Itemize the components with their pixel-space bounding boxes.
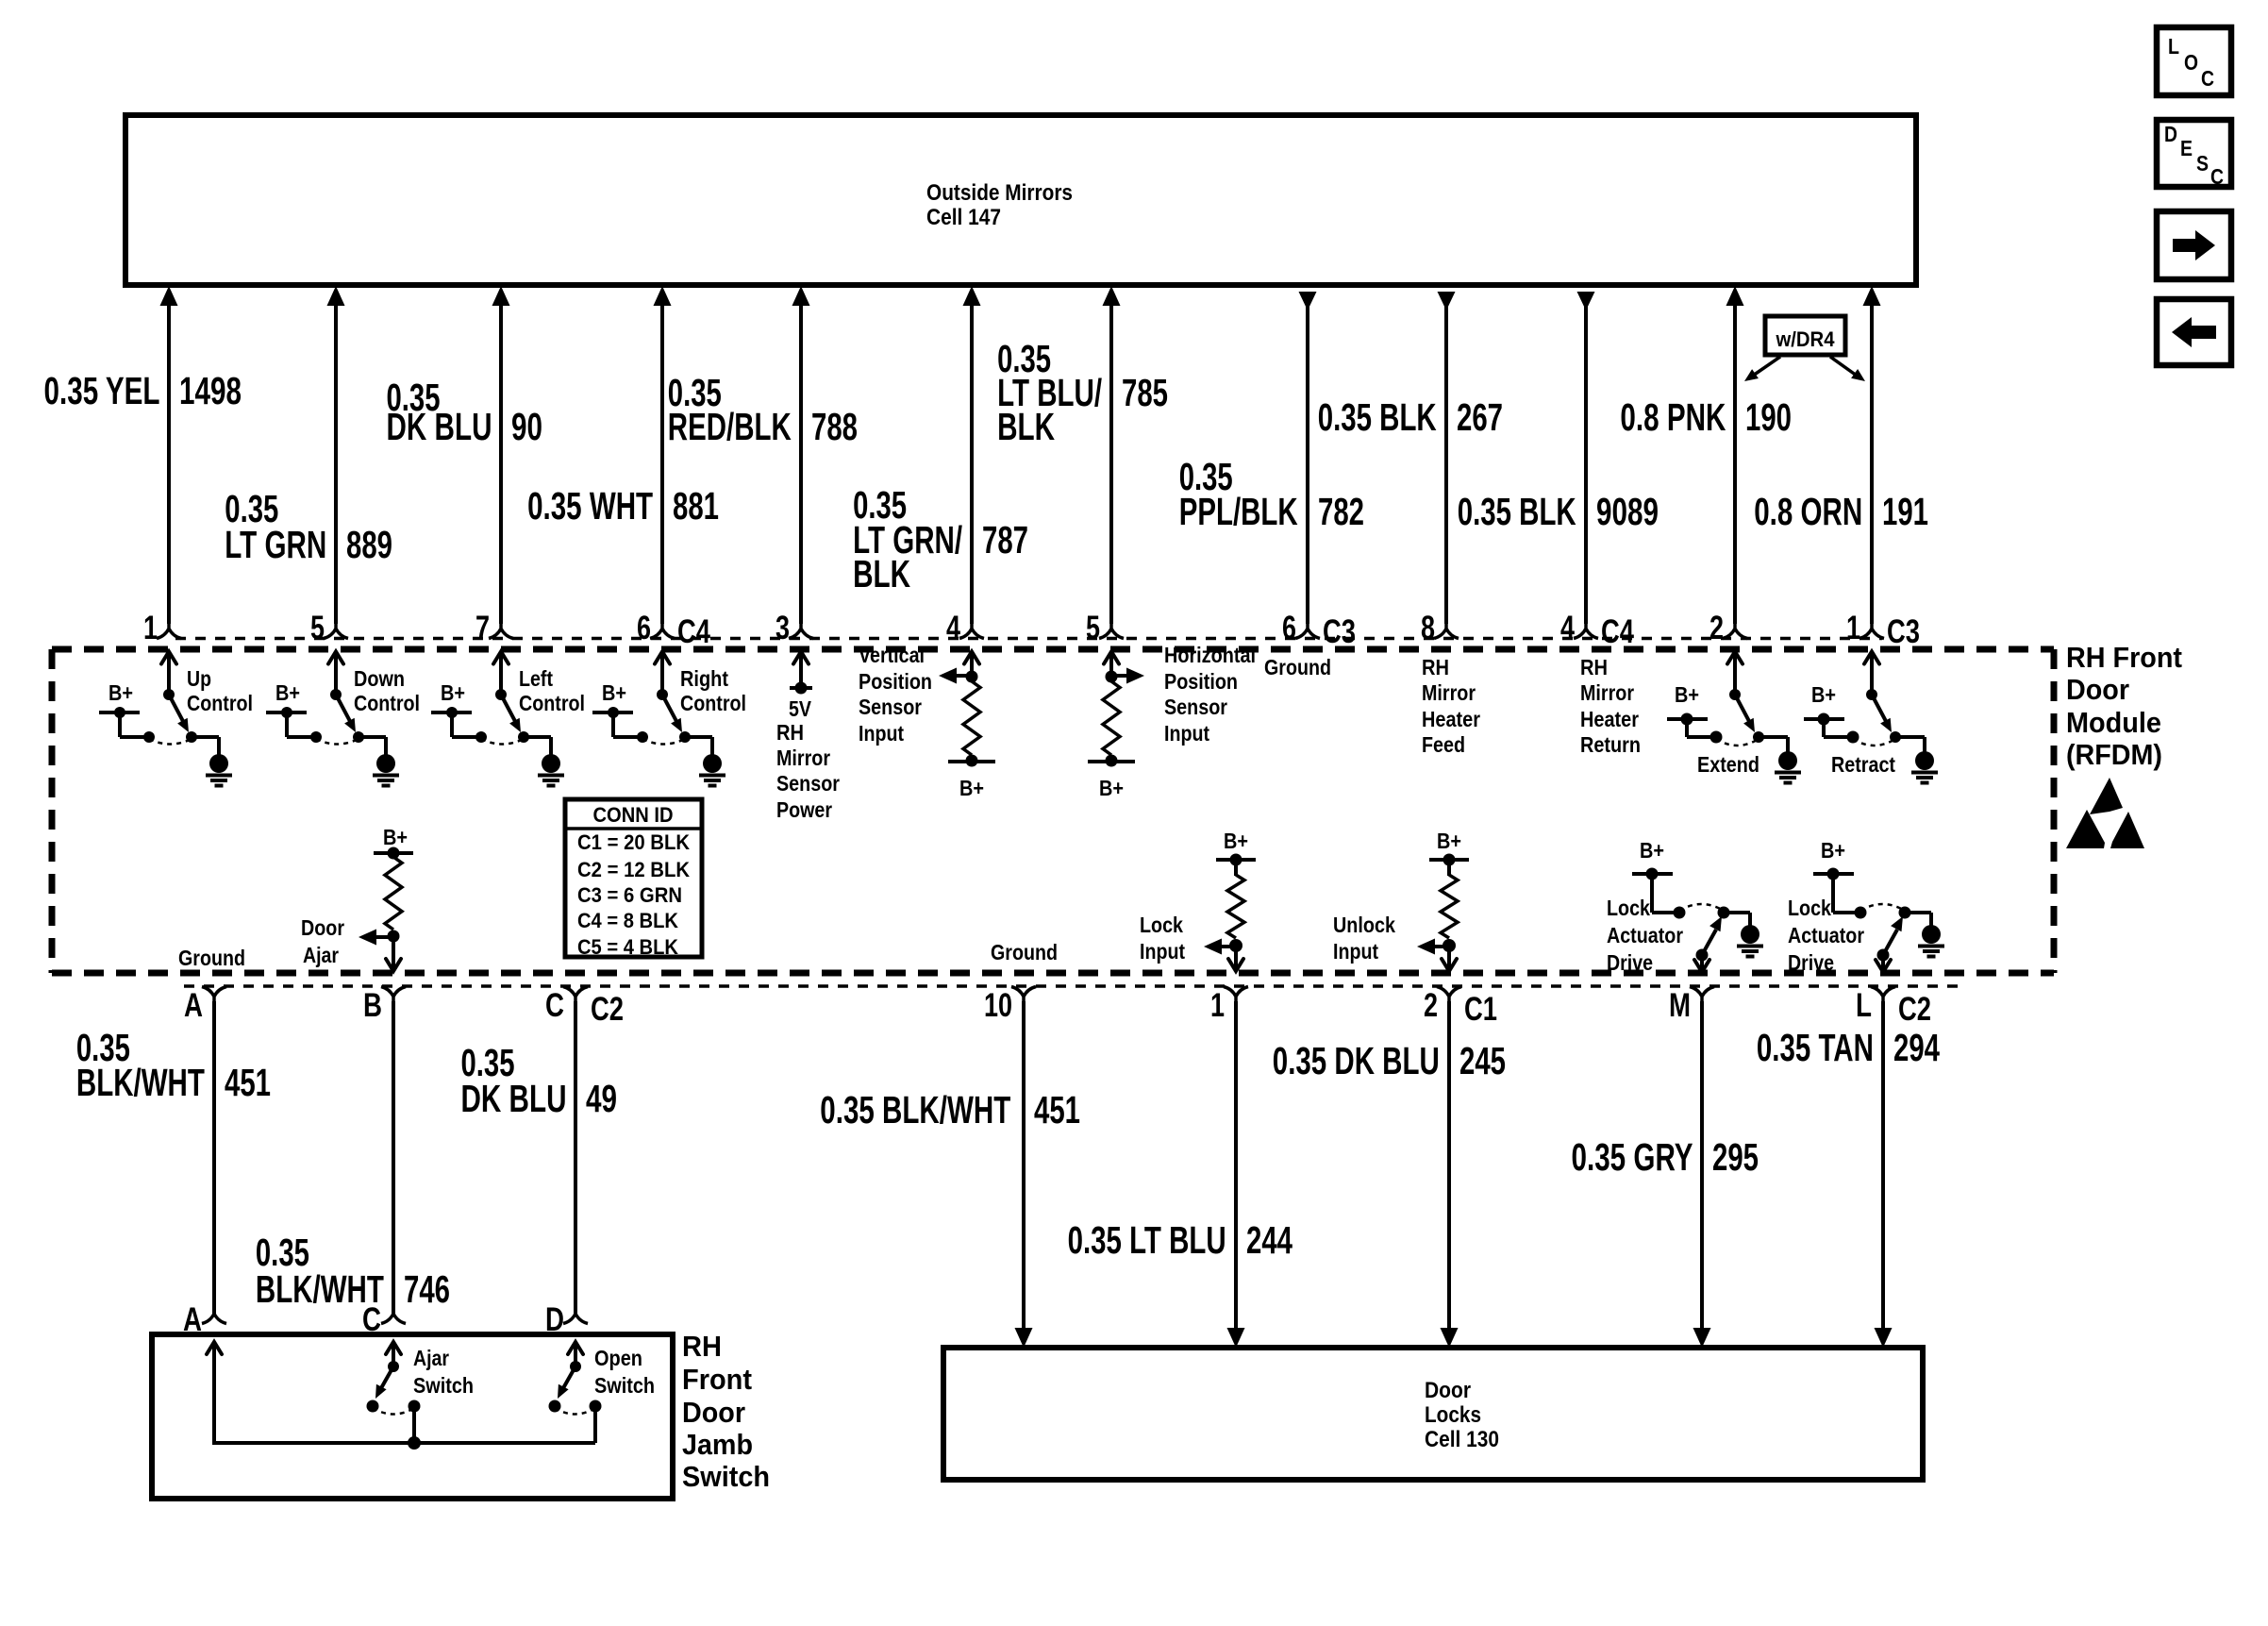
connector fork pin 5 sensor <box>1086 610 1124 646</box>
svg-text:C1 = 20 BLK: C1 = 20 BLK <box>577 830 690 854</box>
label 0.35 GRY 295 <box>1572 1135 1759 1179</box>
svg-text:B+: B+ <box>959 776 984 800</box>
svg-text:2: 2 <box>1709 610 1724 646</box>
switch Up Control <box>99 652 253 786</box>
svg-text:RED/BLK: RED/BLK <box>668 405 792 448</box>
svg-text:Sensor: Sensor <box>859 695 922 719</box>
RH mirror heater feed label <box>1422 655 1480 757</box>
label 0.35 BLK/WHT 746 (B) <box>256 1231 450 1311</box>
svg-text:C: C <box>545 987 564 1024</box>
connector fork pin 6 C3 <box>1282 610 1356 650</box>
svg-text:782: 782 <box>1318 490 1364 533</box>
svg-text:B+: B+ <box>602 680 626 705</box>
svg-text:5: 5 <box>310 610 325 646</box>
svg-text:C2 = 12 BLK: C2 = 12 BLK <box>577 858 690 881</box>
svg-text:DK BLU: DK BLU <box>461 1077 567 1120</box>
connector fork pin 5 <box>310 610 348 646</box>
svg-text:Sensor: Sensor <box>1164 695 1227 719</box>
svg-text:Mirror: Mirror <box>1422 680 1476 705</box>
svg-text:0.35 TAN: 0.35 TAN <box>1757 1026 1874 1069</box>
svg-text:Left: Left <box>519 666 553 691</box>
svg-text:D: D <box>545 1301 564 1338</box>
svg-text:B+: B+ <box>1821 838 1845 863</box>
svg-text:C3 = 6 GRN: C3 = 6 GRN <box>577 883 682 907</box>
top connector dashed line <box>175 637 1882 641</box>
resistor horizontal position sensor <box>1088 643 1256 800</box>
svg-text:DK BLU: DK BLU <box>387 405 492 448</box>
svg-text:6: 6 <box>637 610 651 646</box>
icon box LOC <box>2157 27 2231 95</box>
svg-text:A: A <box>184 987 203 1024</box>
svg-text:Input: Input <box>1164 721 1209 746</box>
svg-text:4: 4 <box>946 610 960 646</box>
svg-text:C4: C4 <box>677 613 710 650</box>
connector fork pin L C2 <box>1856 987 1931 1029</box>
svg-text:Door: Door <box>2066 673 2129 706</box>
svg-text:Control: Control <box>187 691 253 715</box>
svg-text:451: 451 <box>1034 1088 1080 1131</box>
wire 0.35 LT BLU/BLK 785 to pin 5 <box>1103 286 1121 624</box>
label 0.35 TAN 294 <box>1757 1026 1940 1069</box>
svg-text:(RFDM): (RFDM) <box>2066 738 2162 771</box>
door locks box (Cell 130) <box>943 1348 1923 1480</box>
svg-text:Door: Door <box>301 915 344 940</box>
svg-text:BLK: BLK <box>997 405 1055 448</box>
svg-text:Heater: Heater <box>1422 707 1480 731</box>
svg-text:Up: Up <box>187 666 211 691</box>
svg-text:C4: C4 <box>1601 613 1634 650</box>
switch Retract <box>1804 652 1938 783</box>
label 0.35 BLK/WHT 451 (10) <box>820 1088 1080 1131</box>
svg-text:B+: B+ <box>275 680 300 705</box>
svg-text:Actuator: Actuator <box>1788 923 1864 947</box>
svg-text:0.35 GRY: 0.35 GRY <box>1572 1135 1693 1179</box>
svg-text:Control: Control <box>519 691 585 715</box>
svg-text:Switch: Switch <box>682 1460 770 1493</box>
svg-text:L: L <box>2168 34 2179 59</box>
svg-text:Lock: Lock <box>1788 896 1831 920</box>
svg-text:Ajar: Ajar <box>303 943 339 967</box>
connector fork pin C C2 <box>545 987 624 1029</box>
svg-text:Heater: Heater <box>1580 707 1639 731</box>
svg-text:1498: 1498 <box>179 369 242 412</box>
svg-text:0.35 LT BLU: 0.35 LT BLU <box>1068 1218 1226 1262</box>
wire 0.8 PNK 190 to pin 2 <box>1726 286 1744 624</box>
svg-text:D: D <box>2164 122 2177 146</box>
svg-text:2: 2 <box>1424 987 1438 1024</box>
RH front door module dashed border <box>52 649 2054 973</box>
svg-text:Switch: Switch <box>413 1373 474 1398</box>
svg-text:Ground: Ground <box>991 940 1058 964</box>
svg-text:Front: Front <box>682 1363 752 1396</box>
svg-text:6: 6 <box>1282 610 1296 646</box>
svg-text:Drive: Drive <box>1607 950 1653 975</box>
svg-text:295: 295 <box>1712 1135 1759 1179</box>
svg-text:LT GRN: LT GRN <box>225 523 326 566</box>
label 0.35 DK BLU 90 <box>387 376 543 448</box>
svg-text:1: 1 <box>1846 610 1860 646</box>
wire 0.35 RED/BLK 788 to pin 3 <box>792 286 810 624</box>
svg-text:O: O <box>2184 50 2198 75</box>
RH front door module RFDM label <box>2066 641 2182 771</box>
5V RH mirror sensor power feed <box>776 652 840 823</box>
svg-text:10: 10 <box>984 987 1012 1024</box>
wire 0.35 WHT 881 to pin 6 C4 <box>654 286 672 624</box>
label 0.35 RED/BLK 788 <box>668 371 858 448</box>
svg-text:B: B <box>363 987 382 1024</box>
svg-text:Cell 130: Cell 130 <box>1425 1427 1499 1452</box>
svg-text:Unlock: Unlock <box>1333 913 1395 937</box>
wire 0.35 LT GRN 889 to pin 5 <box>327 286 345 624</box>
svg-text:C: C <box>2210 164 2224 189</box>
svg-text:451: 451 <box>225 1061 271 1104</box>
connector fork pin B <box>363 987 406 1025</box>
svg-text:9089: 9089 <box>1596 490 1659 533</box>
svg-text:0.35 BLK/WHT: 0.35 BLK/WHT <box>820 1088 1010 1131</box>
svg-text:5V: 5V <box>789 696 812 721</box>
svg-text:B+: B+ <box>1811 682 1836 707</box>
wire 0.8 ORN 191 to pin 1 C3 <box>1863 286 1881 624</box>
label 0.35 YEL 1498 <box>44 369 242 412</box>
svg-text:Down: Down <box>354 666 405 691</box>
wire 0.35 DK BLU 49 pin C <box>563 1001 588 1324</box>
svg-text:B+: B+ <box>1224 829 1248 853</box>
svg-text:Outside Mirrors: Outside Mirrors <box>926 180 1073 206</box>
svg-text:Right: Right <box>680 666 728 691</box>
svg-text:Control: Control <box>680 691 746 715</box>
svg-text:785: 785 <box>1122 371 1168 414</box>
connector fork pin 2 <box>1709 610 1747 646</box>
svg-text:Retract: Retract <box>1831 752 1895 777</box>
wire 0.35 LT BLU 244 pin 1 <box>1227 1001 1245 1348</box>
RH mirror heater return label <box>1580 655 1641 757</box>
svg-text:w/DR4: w/DR4 <box>1776 327 1836 351</box>
svg-text:Door: Door <box>682 1396 745 1429</box>
icon box left arrow <box>2157 299 2231 365</box>
svg-text:Position: Position <box>1164 669 1238 694</box>
label 0.35 LT GRN/BLK 787 <box>853 483 1028 595</box>
label 0.35 LT GRN 889 <box>225 487 392 566</box>
ESD sensitivity symbol <box>2066 778 2144 848</box>
wire 0.35 BLK/WHT 451 pin A <box>202 1001 226 1324</box>
svg-text:881: 881 <box>673 484 719 528</box>
connector fork pin 2 C1 <box>1424 987 1497 1029</box>
svg-text:Cell 147: Cell 147 <box>926 205 1001 230</box>
svg-text:B+: B+ <box>1640 838 1664 863</box>
resistor vertical position sensor <box>859 643 995 800</box>
connector fork pin 8 <box>1421 610 1459 646</box>
svg-text:191: 191 <box>1882 490 1928 533</box>
wire 0.35 BLK 267 to pin 8 <box>1438 292 1456 624</box>
svg-text:B+: B+ <box>383 825 408 849</box>
svg-text:C4 = 8 BLK: C4 = 8 BLK <box>577 909 678 932</box>
svg-text:C: C <box>362 1301 381 1338</box>
svg-text:889: 889 <box>346 523 392 566</box>
svg-text:RH: RH <box>1580 655 1608 679</box>
connector fork pin 3 <box>775 610 813 646</box>
connector fork pin 1 C1 <box>1210 987 1248 1025</box>
connector fork pin 10 <box>984 987 1036 1025</box>
RH front door jamb switch box <box>152 1334 673 1499</box>
svg-text:Control: Control <box>354 691 420 715</box>
connector fork pin 4 <box>946 610 984 646</box>
svg-text:BLK: BLK <box>853 552 910 595</box>
svg-text:B+: B+ <box>1099 776 1124 800</box>
wire 0.35 DK BLU 245 pin 2 <box>1441 1001 1459 1348</box>
outside mirrors box (Cell 147) <box>125 115 1916 285</box>
connector fork pin M <box>1669 987 1714 1025</box>
svg-text:5: 5 <box>1086 610 1100 646</box>
svg-text:Return: Return <box>1580 732 1641 757</box>
wire 0.35 YEL 1498 to pin 1 <box>160 286 178 624</box>
svg-text:4: 4 <box>1560 610 1575 646</box>
svg-text:B+: B+ <box>108 680 133 705</box>
svg-text:Input: Input <box>1333 939 1378 964</box>
svg-text:C5 = 4 BLK: C5 = 4 BLK <box>577 935 678 959</box>
svg-text:Ground: Ground <box>1264 655 1331 679</box>
icon box DESC <box>2157 120 2231 189</box>
svg-text:Jamb: Jamb <box>682 1428 753 1461</box>
svg-text:Extend: Extend <box>1697 752 1759 777</box>
jamb switch side label <box>682 1330 770 1493</box>
svg-text:C3: C3 <box>1887 613 1920 650</box>
switch Right Control <box>592 652 746 786</box>
resistor door ajar <box>301 825 413 971</box>
label 0.35 LT BLU/BLK 785 <box>997 337 1168 448</box>
svg-text:RH: RH <box>776 720 804 745</box>
svg-text:C3: C3 <box>1323 613 1356 650</box>
switch Extend <box>1667 652 1801 783</box>
svg-text:Sensor: Sensor <box>776 771 840 796</box>
svg-text:244: 244 <box>1246 1218 1292 1262</box>
wire 0.35 DK BLU 90 to pin 7 <box>492 286 510 624</box>
label 0.35 BLK 9089 <box>1458 490 1659 533</box>
svg-text:1: 1 <box>143 610 158 646</box>
svg-text:B+: B+ <box>1675 682 1699 707</box>
svg-text:0.8 ORN: 0.8 ORN <box>1754 490 1862 533</box>
label 0.8 PNK 190 <box>1620 395 1792 439</box>
svg-text:8: 8 <box>1421 610 1435 646</box>
label 0.35 DK BLU 49 (C) <box>461 1041 618 1120</box>
svg-text:90: 90 <box>511 405 542 448</box>
label 0.35 BLK/WHT 451 (A) <box>76 1026 271 1104</box>
svg-text:3: 3 <box>775 610 790 646</box>
svg-text:A: A <box>183 1301 202 1338</box>
svg-text:Horizontal: Horizontal <box>1164 643 1256 667</box>
connector fork pin 1 <box>143 610 181 646</box>
svg-text:788: 788 <box>811 405 858 448</box>
svg-text:0.35 WHT: 0.35 WHT <box>527 484 653 528</box>
svg-text:294: 294 <box>1893 1026 1940 1069</box>
wire 0.35 LT GRN/BLK 787 to pin 4 <box>963 286 981 624</box>
connector fork pin 1 C3 <box>1846 610 1920 650</box>
svg-text:190: 190 <box>1745 395 1792 439</box>
svg-text:PPL/BLK: PPL/BLK <box>1179 490 1298 533</box>
label 0.35 PPL/BLK 782 <box>1179 455 1364 533</box>
icon box right arrow <box>2157 211 2231 279</box>
w/DR4 option box <box>1765 316 1845 355</box>
svg-text:Mirror: Mirror <box>1580 680 1634 705</box>
wire 0.35 BLK/WHT 746 pin B <box>381 1001 406 1324</box>
connector fork pin A <box>184 987 226 1025</box>
svg-text:C: C <box>2201 66 2214 91</box>
label 0.35 BLK 267 <box>1318 395 1503 439</box>
connector fork pin 4 C4b <box>1560 610 1634 650</box>
svg-text:Input: Input <box>859 721 904 746</box>
svg-text:RH: RH <box>682 1330 722 1363</box>
connector fork pin 6 C4 <box>637 610 710 650</box>
svg-text:Mirror: Mirror <box>776 746 830 770</box>
svg-text:0.35 YEL: 0.35 YEL <box>44 369 160 412</box>
wire 0.35 TAN 294 pin L <box>1875 1001 1893 1348</box>
svg-text:Switch: Switch <box>594 1373 655 1398</box>
svg-text:Position: Position <box>859 669 932 694</box>
switch lock actuator drive M <box>1607 838 1763 975</box>
w/DR4 pointer arrows <box>1744 357 1865 381</box>
svg-text:Door: Door <box>1425 1378 1471 1403</box>
svg-text:C2: C2 <box>1898 991 1931 1028</box>
wire 0.35 GRY 295 pin M <box>1693 1001 1711 1348</box>
svg-text:267: 267 <box>1457 395 1503 439</box>
svg-text:L: L <box>1856 987 1872 1024</box>
resistor unlock input <box>1333 829 1469 971</box>
label 0.8 ORN 191 <box>1754 490 1928 533</box>
svg-text:49: 49 <box>586 1077 617 1120</box>
svg-text:Lock: Lock <box>1607 896 1650 920</box>
svg-text:787: 787 <box>982 518 1028 562</box>
switch Down Control <box>266 652 420 786</box>
label 0.35 LT BLU 244 <box>1068 1218 1293 1262</box>
svg-text:RH: RH <box>1422 655 1449 679</box>
svg-text:Lock: Lock <box>1140 913 1183 937</box>
switch Open <box>549 1342 656 1443</box>
svg-text:Ajar: Ajar <box>413 1346 449 1370</box>
svg-text:E: E <box>2180 136 2193 160</box>
svg-text:Vertical: Vertical <box>859 643 925 667</box>
svg-text:0.35 BLK: 0.35 BLK <box>1318 395 1437 439</box>
label 0.35 DK BLU 245 <box>1273 1039 1506 1082</box>
bottom connector dashed line <box>184 984 1967 988</box>
svg-text:1: 1 <box>1210 987 1225 1024</box>
switch lock actuator drive L <box>1788 838 1944 975</box>
svg-text:S: S <box>2196 151 2209 176</box>
svg-text:Open: Open <box>594 1346 642 1370</box>
resistor lock input <box>1140 829 1256 971</box>
svg-text:Drive: Drive <box>1788 950 1834 975</box>
svg-text:7: 7 <box>475 610 490 646</box>
wire 0.35 PPL/BLK 782 to pin 6 C3 <box>1299 292 1317 624</box>
svg-text:245: 245 <box>1459 1039 1506 1082</box>
svg-text:Module: Module <box>2066 706 2161 739</box>
svg-text:CONN ID: CONN ID <box>593 803 674 827</box>
svg-text:B+: B+ <box>1437 829 1461 853</box>
svg-text:Power: Power <box>776 797 832 822</box>
svg-text:C2: C2 <box>591 991 624 1028</box>
wire 0.35 BLK/WHT 451 pin 10 <box>1015 1001 1033 1348</box>
svg-text:B+: B+ <box>441 680 465 705</box>
svg-text:0.35 DK BLU: 0.35 DK BLU <box>1273 1039 1440 1082</box>
switch Left Control <box>431 652 585 786</box>
CONN ID table <box>565 799 702 959</box>
svg-text:0.35 BLK: 0.35 BLK <box>1458 490 1576 533</box>
label 0.35 WHT 881 <box>527 484 719 528</box>
switch Ajar <box>367 1342 475 1450</box>
jamb switch ground bus wire <box>207 1342 595 1445</box>
svg-text:C1: C1 <box>1464 991 1497 1028</box>
wire 0.35 BLK 9089 to pin 4 C4 <box>1577 292 1595 624</box>
svg-text:M: M <box>1669 987 1691 1024</box>
svg-text:Input: Input <box>1140 939 1185 964</box>
svg-text:BLK/WHT: BLK/WHT <box>76 1061 205 1104</box>
svg-text:Actuator: Actuator <box>1607 923 1683 947</box>
svg-text:0.8 PNK: 0.8 PNK <box>1620 395 1726 439</box>
svg-text:Feed: Feed <box>1422 732 1465 757</box>
svg-text:Locks: Locks <box>1425 1402 1481 1428</box>
connector fork pin 7 <box>475 610 513 646</box>
svg-text:746: 746 <box>404 1267 450 1311</box>
svg-text:Ground: Ground <box>178 946 245 970</box>
svg-text:RH Front: RH Front <box>2066 641 2182 674</box>
